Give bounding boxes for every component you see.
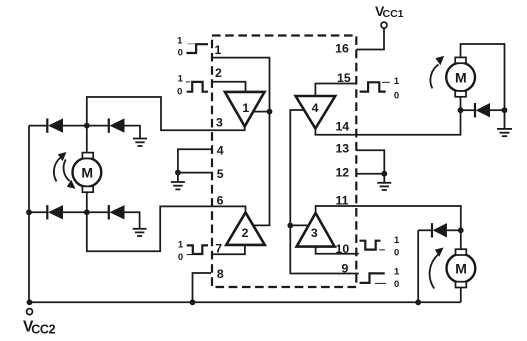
- motor M2 rotation arrow: [430, 56, 444, 89]
- svg-text:1: 1: [178, 240, 184, 251]
- ground bottom-left: [133, 229, 147, 236]
- waveform input pin2: [186, 82, 208, 92]
- diode D3: [47, 205, 63, 219]
- svg-text:10: 10: [336, 242, 350, 256]
- svg-text:4: 4: [217, 144, 224, 158]
- svg-text:1: 1: [394, 76, 400, 87]
- svg-text:1: 1: [394, 235, 400, 246]
- wire pin7 to driver2 input: [212, 245, 245, 254]
- wire pin16 to VCC1: [356, 28, 384, 49]
- motor M3 rotation arrow: [430, 248, 444, 289]
- wire driver3 enable branch: [290, 224, 309, 226]
- ground top-right: [497, 110, 512, 136]
- diode D1: [47, 118, 63, 132]
- waveform pin2 labels: [177, 74, 184, 98]
- svg-text:12: 12: [335, 166, 349, 180]
- svg-text:7: 7: [215, 241, 222, 255]
- junction dot rail diode branch: [415, 299, 421, 305]
- wire motor M3 bottom to rail: [460, 287, 462, 303]
- waveform input pin10: [360, 241, 386, 250]
- wire M3 node to motor top: [460, 230, 462, 249]
- VCC1 terminal: [381, 22, 387, 28]
- motor M2: [446, 57, 475, 96]
- motor M3: [447, 249, 476, 287]
- svg-text:1: 1: [178, 74, 184, 85]
- svg-text:1: 1: [242, 101, 249, 115]
- wire pin13 to ground: [356, 150, 384, 174]
- waveform pin9 labels: [394, 267, 400, 290]
- svg-text:2: 2: [215, 66, 222, 80]
- motor M1 rotation arrows: [54, 152, 76, 189]
- driver 4 triangle: [296, 96, 336, 129]
- svg-text:8: 8: [217, 267, 224, 281]
- wire top-right motor top loop: [461, 44, 505, 110]
- svg-text:1: 1: [394, 267, 400, 278]
- VCC2 bottom rail: [30, 301, 461, 303]
- svg-text:0: 0: [394, 91, 399, 102]
- svg-text:3: 3: [216, 115, 223, 129]
- junction dot pin8 rail: [190, 299, 196, 305]
- wire driver1 output pin3 to left motor top node: [87, 97, 245, 130]
- svg-text:M: M: [455, 260, 467, 276]
- diode D4: [109, 205, 125, 219]
- svg-text:2: 2: [242, 226, 249, 240]
- svg-text:M: M: [81, 165, 93, 181]
- wire driver2 output to pin6 and left motor bottom node: [87, 206, 246, 251]
- motor M1 wires: [86, 126, 88, 152]
- svg-text:M: M: [455, 69, 467, 85]
- junction dot enable 1,2: [267, 109, 273, 115]
- wire diode branch to rail: [417, 230, 419, 302]
- wire pin12 to ground junction: [356, 173, 384, 175]
- wire pin14 to right top motor: [356, 110, 460, 135]
- svg-text:4: 4: [312, 101, 319, 115]
- pin number labels left: [215, 43, 224, 281]
- svg-text:0: 0: [394, 247, 399, 258]
- waveform input pin1: [187, 44, 209, 53]
- svg-text:13: 13: [335, 141, 349, 155]
- wire pin4 to ground: [178, 149, 211, 172]
- waveform input pin15: [360, 82, 390, 91]
- wire driver3 output to pin11: [316, 206, 357, 213]
- waveform input pin9: [360, 273, 386, 283]
- ground pins 13,12: [377, 174, 391, 190]
- svg-text:1: 1: [177, 35, 183, 46]
- VCC2 label: [23, 318, 56, 336]
- junction dot left motor bottom: [84, 209, 90, 215]
- svg-text:5: 5: [217, 167, 224, 181]
- wire pin1 to enable line of drivers 1,2: [211, 58, 270, 226]
- IC U1 dashed outline: [212, 36, 356, 288]
- wire pin2 to driver1 input: [211, 82, 246, 92]
- junction dot pins 4,5: [175, 170, 181, 176]
- waveform input pin7: [187, 245, 208, 254]
- driver 3 triangle: [297, 213, 335, 247]
- junction dot left rail bottom row: [26, 209, 32, 215]
- svg-text:CC2: CC2: [31, 323, 55, 337]
- wire driver1 enable branch: [254, 111, 270, 113]
- VCC1 label: [375, 3, 404, 20]
- svg-text:15: 15: [337, 71, 351, 85]
- svg-text:3: 3: [311, 226, 318, 240]
- svg-text:9: 9: [341, 262, 348, 276]
- wire pin15 to driver4 input: [315, 84, 356, 97]
- junction dot M3 node: [458, 227, 464, 233]
- wire driver4 output to pin14: [315, 129, 356, 135]
- waveform pin10 labels: [394, 235, 400, 258]
- left rail wire: [28, 126, 30, 303]
- wire pin8 to VCC2 rail: [193, 273, 212, 302]
- ground pins 4,5: [171, 173, 185, 190]
- junction dot top-right ground node: [502, 107, 508, 113]
- left bottom diode row wires: [29, 211, 48, 213]
- junction dot M2 node: [458, 107, 464, 113]
- waveform pin7 labels: [178, 240, 184, 263]
- wire motor M2 bottom to node: [460, 97, 462, 110]
- ground top-left: [133, 139, 147, 147]
- waveform pin1 labels: [177, 35, 183, 58]
- right bottom diode row wires: [418, 229, 432, 231]
- svg-text:0: 0: [178, 252, 183, 263]
- svg-text:16: 16: [335, 42, 349, 56]
- driver 2 triangle: [226, 212, 265, 245]
- wire pin10 to driver3 input: [316, 247, 359, 254]
- diode D2: [109, 118, 125, 132]
- VCC2 terminal junction dot: [27, 299, 33, 305]
- junction dot pins 13,12: [381, 171, 387, 177]
- svg-text:0: 0: [177, 87, 182, 98]
- diode D5: [475, 103, 490, 117]
- svg-text:6: 6: [217, 194, 224, 208]
- svg-text:1: 1: [215, 43, 222, 57]
- motor M1: [73, 153, 102, 193]
- junction dot left motor top: [84, 123, 90, 129]
- diode D6: [432, 223, 447, 237]
- left top diode row wires: [29, 125, 48, 127]
- wire pin9 to enable line of drivers 3,4: [290, 110, 359, 274]
- svg-text:0: 0: [178, 48, 183, 59]
- svg-text:CC1: CC1: [383, 8, 404, 20]
- waveform pin15 labels: [394, 76, 400, 102]
- wire pin5 to ground junction: [178, 172, 211, 174]
- svg-text:14: 14: [335, 120, 349, 134]
- svg-text:0: 0: [394, 279, 399, 290]
- right top diode row wires: [461, 109, 476, 111]
- VCC2 terminal: [27, 309, 33, 315]
- svg-text:11: 11: [336, 194, 349, 208]
- wire pin11 to right bottom motor: [356, 206, 461, 230]
- junction dot enable 3,4: [287, 223, 293, 229]
- pin number labels right: [335, 42, 351, 276]
- driver 1 triangle: [225, 92, 265, 127]
